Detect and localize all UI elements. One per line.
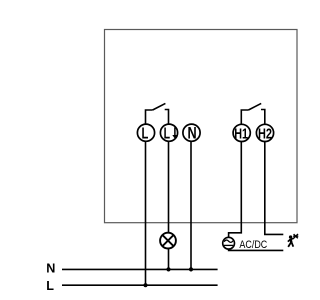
svg-text:N: N (46, 262, 55, 276)
svg-text:L: L (46, 279, 54, 293)
svg-text:L: L (164, 124, 170, 142)
svg-text:H2: H2 (258, 125, 272, 142)
svg-text:H1: H1 (234, 125, 248, 142)
svg-text:N: N (188, 125, 197, 143)
svg-text:L: L (142, 123, 149, 142)
svg-text:AC/DC: AC/DC (239, 239, 267, 251)
